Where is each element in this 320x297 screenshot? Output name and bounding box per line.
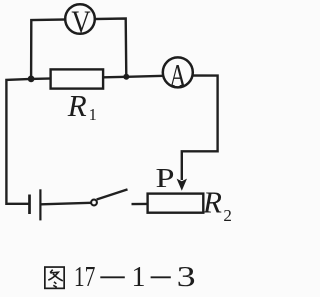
svg-text:1: 1 [132, 262, 146, 293]
svg-text:2: 2 [223, 206, 232, 225]
svg-text:3: 3 [177, 262, 196, 293]
svg-text:17: 17 [74, 262, 96, 293]
svg-text:V: V [71, 4, 90, 40]
svg-text:A: A [170, 58, 187, 93]
svg-text:1: 1 [89, 105, 97, 124]
svg-text:R: R [67, 88, 87, 123]
svg-text:P: P [156, 163, 175, 193]
svg-text:R: R [202, 184, 222, 219]
